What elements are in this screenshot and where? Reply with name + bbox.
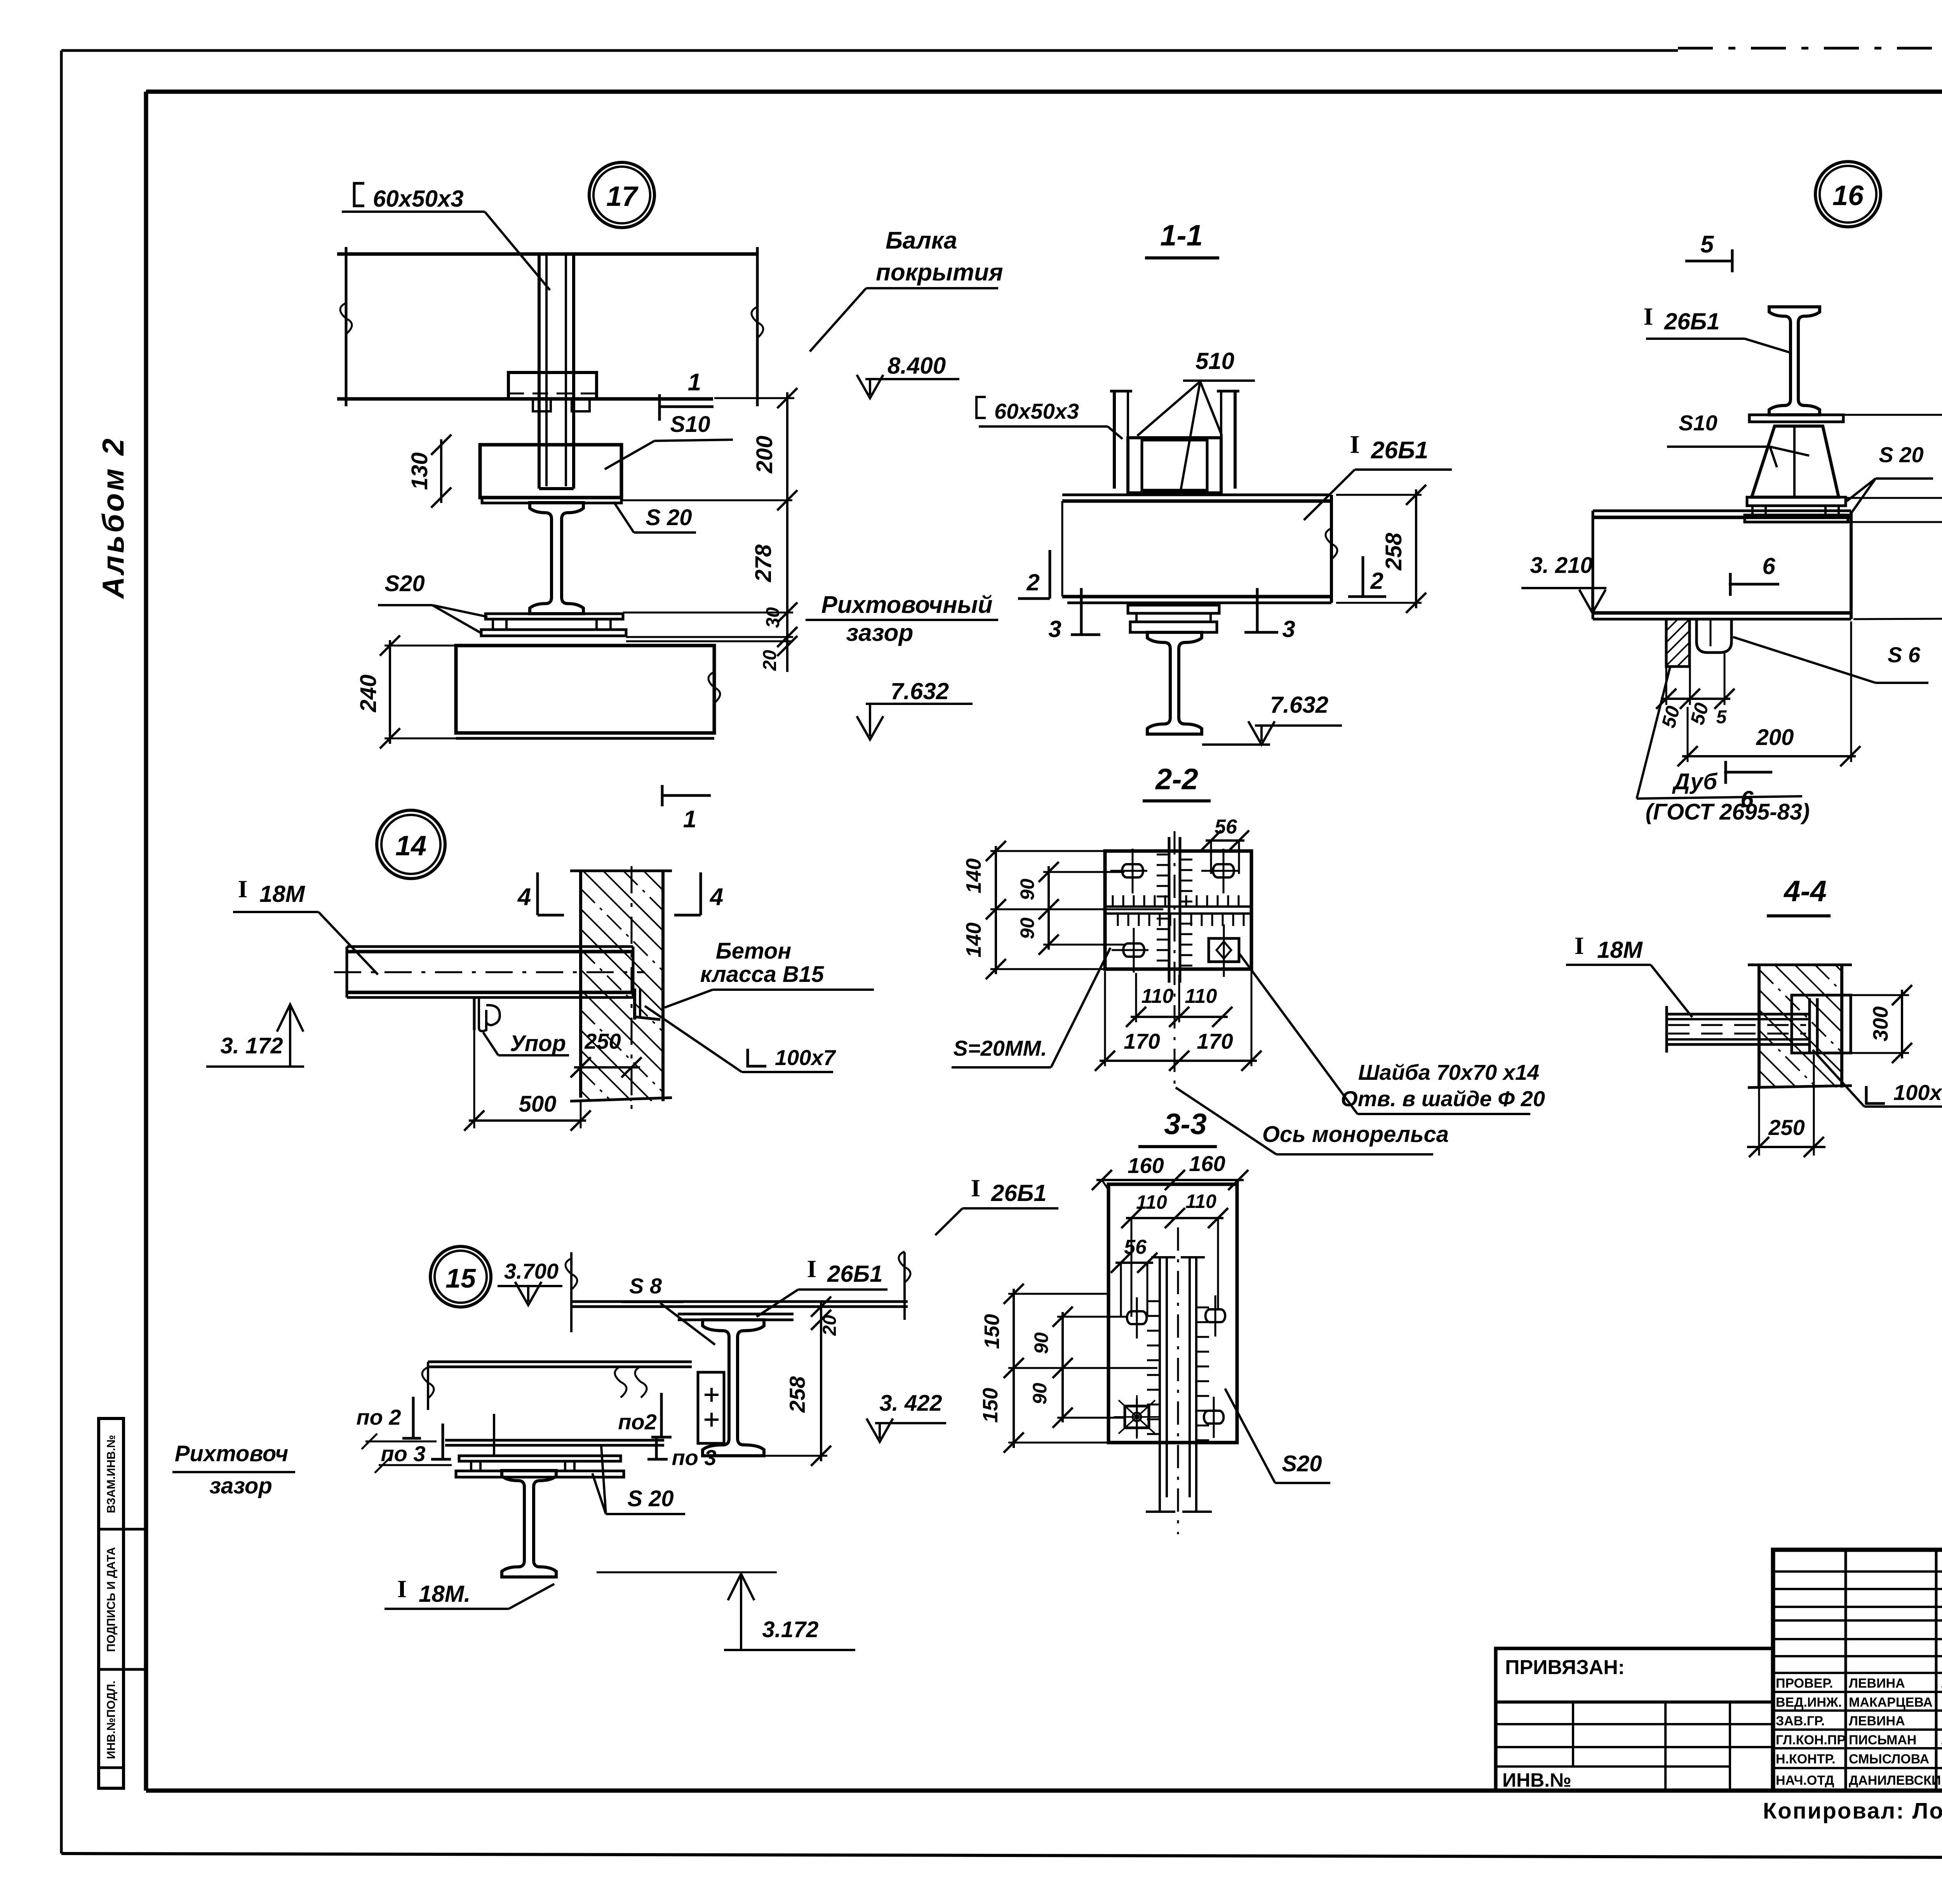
gusset trapezoid node16 [1752,426,1839,497]
svg-text:26Б1: 26Б1 [991,1180,1047,1206]
svg-text:26Б1: 26Б1 [1371,437,1428,464]
svg-text:(ГОСТ 2695-83): (ГОСТ 2695-83) [1646,799,1810,825]
svg-text:ПОДПИСЬ И ДАТА: ПОДПИСЬ И ДАТА [105,1547,118,1652]
svg-text:ПРИВЯЗАН:: ПРИВЯЗАН: [1505,1656,1625,1679]
sheet outer border left [60,50,63,1854]
node 14 bubble [377,810,445,879]
svg-text:покрытия: покрытия [876,259,1003,286]
washer square 2-2 [1209,938,1239,962]
dims 90 90 inner 2-2 [1048,866,1050,950]
dim 130 node17 [440,439,442,503]
beam web body 1-1 [1061,501,1063,597]
svg-text:90: 90 [1016,879,1038,900]
break marks mid node15 [615,1366,626,1398]
clamp strip node16 [1697,619,1731,653]
svg-text:S20: S20 [385,571,425,596]
upor stop piece node14 [473,997,476,1030]
node 15 bubble [430,1246,491,1307]
svg-text:110: 110 [1142,985,1174,1008]
svg-text:по 3: по 3 [381,1441,425,1466]
svg-text:140: 140 [962,922,985,957]
leader to hanger channel node17 [485,212,550,290]
svg-text:6: 6 [1762,553,1775,579]
svg-text:Рихтовочный: Рихтовочный [821,592,993,618]
svg-text:I: I [238,875,248,903]
svg-text:ПИСЬМАН: ПИСЬМАН [1849,1733,1916,1747]
svg-text:200: 200 [1756,725,1794,750]
wall 4-4 [1758,965,1761,1088]
svg-text:160: 160 [1189,1151,1225,1176]
dims 170 170 bottom 2-2 [1104,971,1106,1066]
section mark 6 bottom node16 [1724,771,1772,774]
svg-text:Копировал: Логинова: Копировал: Логинова [1763,1798,1942,1824]
svg-text:СМЫСЛОВА: СМЫСЛОВА [1849,1752,1929,1767]
I26B1 cross section node15 [703,1320,764,1456]
svg-text:20: 20 [760,650,780,671]
svg-text:S 20: S 20 [646,505,692,530]
gap plates node15 [445,1439,664,1442]
svg-text:6: 6 [1740,786,1754,812]
svg-text:Упор: Упор [510,1031,566,1056]
svg-text:1: 1 [683,806,696,833]
node 17 bubble [589,162,654,228]
svg-text:90: 90 [1030,1332,1052,1354]
hanger channels node17 [538,252,541,489]
beam top flange 1-1 [1062,494,1331,496]
svg-text:258: 258 [1381,533,1406,571]
connector block node17 [480,445,621,498]
beam I18M side view node14 [347,945,633,948]
svg-text:по 3: по 3 [672,1445,716,1470]
roof beam right end break node17 [756,247,759,406]
svg-text:15: 15 [445,1263,476,1293]
svg-text:класса В15: класса В15 [700,962,824,987]
svg-text:Альбом 2: Альбом 2 [96,436,130,599]
signature table rows [1773,1570,1942,1573]
svg-text:ЛЕВИНА: ЛЕВИНА [1849,1676,1905,1691]
block bottom plate s20 node17 [482,498,621,503]
svg-text:ГЛ.КОН.ПР: ГЛ.КОН.ПР [1776,1733,1846,1747]
svg-text:3: 3 [1048,616,1061,642]
I26B1 beam section node16 [1769,307,1820,415]
gusset box 1-1 [1128,438,1221,493]
section marks 2 3 left 1-1 [1049,550,1051,599]
svg-text:150: 150 [979,1388,1002,1423]
svg-text:ИНВ.№ПОДЛ.: ИНВ.№ПОДЛ. [105,1681,118,1759]
gap lines to the right node17 [623,612,793,614]
svg-text:7.632: 7.632 [1270,692,1328,718]
svg-text:16: 16 [1832,180,1864,211]
svg-text:3.172: 3.172 [762,1617,818,1642]
recess box 4-4 [1792,995,1851,1053]
svg-text:4: 4 [517,884,531,910]
svg-text:Балка: Балка [886,227,957,254]
svg-text:Отв. в шайде Ф 20: Отв. в шайде Ф 20 [1341,1086,1545,1111]
svg-text:100x7: 100x7 [775,1045,837,1070]
plate stack under beam 1-1 [1128,605,1219,613]
gap line po2 left node15 [365,1441,437,1443]
svg-text:S 20: S 20 [627,1486,673,1511]
svg-text:ПРОВЕР.: ПРОВЕР. [1776,1676,1833,1691]
svg-text:300: 300 [1869,1006,1892,1041]
rail axis 3-3 [1177,1227,1179,1534]
I18M side view node15 [428,1361,692,1363]
dim 20 node15 [820,1302,822,1320]
svg-text:ВЗАМ.ИНВ.№: ВЗАМ.ИНВ.№ [105,1435,118,1513]
svg-text:S 20: S 20 [1879,442,1923,467]
main beam node16 [1593,510,1851,512]
sheet outer border top right dashed [1678,47,1942,50]
svg-text:3. 210: 3. 210 [1530,553,1592,578]
vertical extension node15 [493,1414,495,1456]
svg-text:250: 250 [1768,1115,1805,1140]
svg-text:зазор: зазор [846,620,914,646]
beam axis node14 [334,971,645,973]
svg-text:3-3: 3-3 [1164,1108,1207,1141]
svg-text:110: 110 [1185,1190,1216,1212]
rail axis 2-2 [1174,831,1176,1088]
dim 300 4-4 [1851,994,1909,996]
svg-text:зазор: зазор [209,1473,272,1498]
svg-text:90: 90 [1016,917,1038,939]
svg-text:26Б1: 26Б1 [1664,308,1720,334]
svg-text:20: 20 [820,1315,840,1336]
svg-text:5: 5 [1700,231,1714,258]
left stamp column box [99,1418,124,1788]
signature table columns [1845,1550,1847,1791]
plate 2-2 [1105,851,1251,969]
beam bottom extension node17 [714,397,794,399]
svg-text:130: 130 [407,453,432,490]
monorail I18M under block node17 [530,503,583,614]
svg-text:2-2: 2-2 [1155,763,1198,796]
svg-text:200: 200 [752,436,777,474]
bolt crosses node15 [705,1394,719,1396]
svg-text:26Б1: 26Б1 [827,1261,883,1287]
section mark 1 top node17 [658,394,661,421]
svg-text:258: 258 [785,1376,809,1413]
svg-text:S20: S20 [1282,1451,1322,1476]
svg-text:S=20ММ.: S=20ММ. [953,1036,1047,1060]
title block outline [1773,1550,1942,1791]
svg-text:60x50x3: 60x50x3 [994,399,1079,423]
dims 140 140 left 2-2 [995,846,997,974]
dim 250 4-4 [1758,1088,1760,1156]
svg-text:110: 110 [1185,985,1217,1008]
svg-text:1: 1 [688,369,701,396]
rail through plate 2-2 [1168,837,1171,983]
hanger channels 1-1 [1113,391,1116,489]
I18M face view hanging node15 [502,1471,556,1577]
wall axis dashdot node14 [631,866,633,1111]
svg-text:90: 90 [1029,1383,1051,1405]
inner frame [144,92,148,1791]
svg-text:ИНВ.№: ИНВ.№ [1502,1769,1571,1791]
roof beam top line node17 [337,252,757,256]
svg-text:4-4: 4-4 [1783,875,1827,908]
svg-text:ЛЕВИНА: ЛЕВИНА [1849,1714,1905,1728]
splice plate node15 [698,1372,724,1443]
svg-text:Дуб: Дуб [1672,769,1718,794]
svg-text:3. 422: 3. 422 [879,1391,942,1416]
svg-text:240: 240 [356,675,381,713]
s10 leaders 1-1 [1137,381,1200,436]
I18M beam under 1-1 [1147,632,1202,734]
channel label 1-1 [976,397,986,418]
svg-text:18М: 18М [259,881,306,907]
svg-text:Рихтовоч: Рихтовоч [175,1441,289,1466]
beam bottom flange 1-1 [1062,595,1331,599]
svg-text:250: 250 [584,1029,621,1053]
svg-text:по2: по2 [618,1410,657,1434]
gap line po3 left node15 [379,1464,452,1466]
section mark 1 top node14 [661,785,664,806]
svg-text:30: 30 [763,607,783,628]
dim 200 node16 [1687,707,1689,762]
privyazan table [1496,1648,1773,1791]
svg-text:7.632: 7.632 [891,678,949,704]
svg-text:Бетон: Бетон [716,938,792,964]
anchor burst 3-3 [1125,1406,1149,1428]
svg-text:НАЧ.ОТД: НАЧ.ОТД [1776,1773,1834,1788]
svg-text:3: 3 [1282,616,1295,642]
anchor plate 4-4 [1808,998,1811,1052]
svg-text:3.700: 3.700 [504,1259,559,1283]
extension lines left 3-3 [1008,1293,1108,1295]
svg-text:500: 500 [519,1091,557,1117]
beam plan view 4-4 [1667,1013,1810,1016]
dim 150 150 3-3 [1013,1289,1015,1448]
svg-text:18М: 18М [1597,937,1643,963]
svg-text:S10: S10 [1679,411,1718,435]
svg-text:278: 278 [751,544,776,583]
svg-text:I: I [971,1174,981,1202]
svg-text:18М.: 18М. [419,1581,470,1607]
dims 110 110 bottom 2-2 [1135,973,1137,1022]
dim 240 node17 [389,640,391,744]
svg-text:1-1: 1-1 [1160,219,1203,252]
plate on beam flange node17 [508,372,597,399]
s8 plate node15 [678,1313,794,1316]
sheet outer border bottom [61,1854,1942,1859]
hanger tabs below beam node17 [533,399,551,411]
svg-text:ВЕД.ИНЖ.: ВЕД.ИНЖ. [1776,1695,1842,1710]
plate mid joint band 2-2 [1105,905,1251,908]
angle label node14 [748,1049,766,1066]
svg-text:Шайба 70x70 x14: Шайба 70x70 x14 [1358,1060,1539,1084]
node 16 bubble [1815,162,1881,227]
plates under gusset node16 [1747,497,1846,506]
weld ticks 3-3 [1147,1300,1159,1302]
rail monorail 3-3 [1159,1257,1161,1511]
roof beam left end node17 [345,247,348,406]
svg-text:17: 17 [606,181,639,212]
svg-text:4: 4 [709,884,723,910]
dim 90 90 3-3 [1061,1312,1064,1422]
svg-text:S10: S10 [670,412,710,437]
angle embed node14 [633,989,636,1020]
dim 258 node15 [820,1320,822,1461]
plate 3-3 [1108,1184,1237,1443]
oak block hatched node16 [1666,619,1690,667]
angle label 4-4 [1866,1086,1885,1103]
svg-text:150: 150 [980,1314,1004,1349]
svg-text:2: 2 [1026,569,1039,595]
svg-text:I: I [397,1575,407,1603]
concrete wall node14 [579,871,582,1098]
svg-text:140: 140 [962,858,985,893]
channel label C60x50x3 node17 [354,183,364,206]
svg-text:ДАНИЛЕВСКИ: ДАНИЛЕВСКИ [1849,1773,1941,1788]
svg-text:8.400: 8.400 [887,353,946,379]
svg-text:I: I [1644,303,1653,330]
svg-text:МАКАРЦЕВА: МАКАРЦЕВА [1849,1695,1933,1710]
dims 50 50 5 node16 [1665,667,1667,705]
svg-text:S 8: S 8 [629,1274,662,1298]
plate s10 under beam node16 [1749,415,1843,422]
svg-text:I: I [1575,932,1584,959]
svg-text:170: 170 [1124,1029,1160,1053]
svg-text:I: I [1350,430,1360,459]
sheet outer border top [61,49,1678,52]
lower plate stack node17 [486,614,623,619]
upper beam lines node15 [571,1300,908,1303]
svg-text:100x7: 100x7 [1893,1080,1942,1105]
svg-text:по 2: по 2 [356,1405,401,1429]
weld ticks along joint 2-2 [1112,895,1114,906]
svg-text:Ось монорельса: Ось монорельса [1262,1122,1449,1147]
svg-text:170: 170 [1197,1029,1233,1053]
svg-text:3. 172: 3. 172 [220,1033,283,1058]
svg-text:Н.КОНТР.: Н.КОНТР. [1776,1752,1836,1767]
svg-text:160: 160 [1128,1153,1164,1178]
holes 3-3 [1127,1311,1147,1324]
svg-text:ЗАВ.ГР.: ЗАВ.ГР. [1776,1714,1825,1728]
svg-text:I: I [807,1255,817,1283]
weld ticks along rail 2-2 [1157,854,1168,856]
section marks right 1-1 [1362,556,1364,597]
svg-text:60x50x3: 60x50x3 [373,186,464,212]
svg-text:S 6: S 6 [1888,642,1921,667]
svg-text:2: 2 [1370,568,1383,594]
svg-text:14: 14 [395,830,426,861]
right dim chain node17 [786,392,788,672]
svg-text:5: 5 [1716,707,1727,727]
holes 2-2 [1122,864,1143,877]
roof beam bottom line node17 [337,397,713,401]
dim 258 1-1 [1415,489,1417,608]
svg-text:510: 510 [1195,348,1234,374]
bottom beam node17 [456,646,714,733]
